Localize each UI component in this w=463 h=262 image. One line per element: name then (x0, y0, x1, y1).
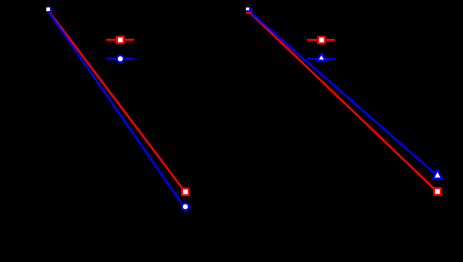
left legend blue line (106, 58, 134, 60)
left panel blue series line (47, 10, 184, 208)
left legend blue circle marker (117, 55, 124, 62)
right legend red square marker (318, 37, 325, 44)
right panel blue series line (248, 10, 437, 175)
left panel blue end marker (open circle) (182, 203, 189, 210)
left legend red square marker (117, 37, 124, 44)
right panel start markers (clipped at axes corner) (246, 8, 253, 14)
left legend red line (106, 39, 134, 41)
right panel red end marker (open square) (434, 188, 441, 195)
right legend red line (307, 39, 335, 41)
left panel start markers (clipped at axes corner) (46, 7, 52, 12)
right panel red series line (247, 10, 437, 192)
left panel red series line (48, 10, 185, 192)
right legend blue line (307, 58, 335, 60)
right legend blue triangle marker (317, 54, 325, 61)
left panel red end marker (open square) (182, 189, 189, 196)
right panel blue end marker (open triangle) (433, 170, 442, 179)
